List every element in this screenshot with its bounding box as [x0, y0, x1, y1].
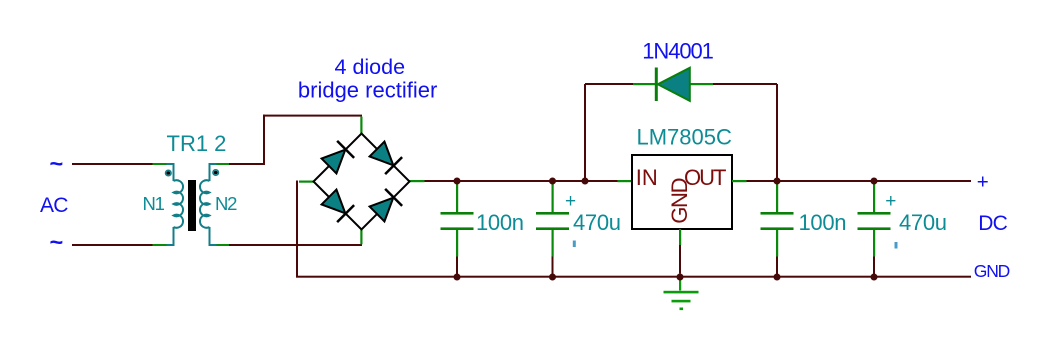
capacitor C3 plates: [761, 212, 794, 215]
diode D5 1N4001 triangle: [658, 68, 690, 101]
ground symbol bar 3: [680, 308, 684, 311]
junction dot bottom rail at C3: [774, 274, 781, 281]
svg-text:+: +: [885, 191, 896, 212]
transformer TR1 primary leg top: [167, 164, 174, 181]
transformer TR1 phase dot left: [166, 170, 171, 175]
bridge diode D3 (left to bottom): [321, 189, 355, 223]
capacitor C2 470u lead top (green): [552, 184, 554, 212]
svg-text:AC: AC: [40, 194, 68, 217]
bridge diode D4 (bottom to right): [369, 189, 403, 223]
junction dot bottom rail at regulator GND: [677, 274, 684, 281]
svg-text:100n: 100n: [476, 210, 524, 235]
svg-text:DC: DC: [978, 212, 1007, 235]
ground symbol bar 2: [672, 300, 691, 303]
wire regulator GND to rail (maroon): [679, 245, 681, 274]
wire secondary top: [229, 163, 265, 165]
regulator U1 pin GND lead (green): [679, 229, 681, 245]
wire diode branch right horizontal: [713, 83, 777, 85]
junction dot top rail at C2: [549, 178, 556, 185]
diode D5 1N4001 anode lead (green): [690, 83, 713, 85]
junction dot top rail at C1: [454, 178, 461, 185]
bridge diode D2 (top to right): [369, 141, 403, 175]
bridge stub left (green): [299, 181, 314, 183]
transformer TR1 pin top-right (green): [217, 163, 230, 165]
capacitor C1 lead bottom (green): [456, 230, 458, 257]
bridge stub top (green): [360, 117, 362, 134]
svg-text:LM7805C: LM7805C: [637, 124, 733, 149]
junction dot bottom rail at C4: [871, 274, 878, 281]
svg-text:TR1 2: TR1 2: [167, 131, 227, 156]
capacitor C3 lead bottom (maroon): [776, 257, 778, 278]
regulator U1 body: [632, 155, 732, 229]
capacitor C2 plates: [536, 212, 569, 215]
svg-text:GND: GND: [667, 178, 692, 223]
bridge diode D1 (left to top): [321, 141, 355, 175]
capacitor C4 lead bottom (green): [873, 230, 875, 257]
svg-text:1N4001: 1N4001: [642, 39, 713, 64]
transformer TR1 secondary leg top: [210, 164, 217, 181]
svg-text:bridge rectifier: bridge rectifier: [298, 78, 437, 103]
capacitor C3 lead bottom (green): [776, 230, 778, 257]
capacitor C3 100n lead top (green): [776, 184, 778, 212]
ground symbol bar 1: [664, 291, 699, 294]
transformer TR1 primary winding N1 coil: [174, 180, 184, 228]
wire diode branch right vertical: [776, 84, 778, 181]
capacitor C4 470u lead top (green): [873, 184, 875, 212]
capacitor C2 lead bottom (maroon): [552, 257, 554, 278]
bridge rectifier diamond: [314, 134, 410, 230]
bridge stub right (green): [410, 180, 425, 182]
diode D5 1N4001 cathode bar: [655, 68, 658, 102]
wire AC top: [72, 163, 153, 165]
junction dot top rail at C4: [871, 178, 878, 185]
wire vertical up to bridge: [263, 115, 265, 165]
diode D5 1N4001 cathode lead (green): [633, 83, 655, 85]
svg-text:~: ~: [50, 229, 64, 255]
svg-text:GND: GND: [974, 261, 1010, 281]
bridge stub bottom (green): [360, 230, 362, 245]
svg-text:N1: N1: [143, 193, 165, 214]
capacitor C4 minus tick: [895, 242, 898, 249]
junction dot bottom rail at C2: [549, 274, 556, 281]
svg-text:+: +: [977, 170, 989, 193]
wire horizontal to bridge top: [263, 115, 362, 117]
transformer TR1 primary leg bottom: [167, 227, 174, 245]
junction dot bottom rail at C1: [454, 274, 461, 281]
svg-text:4 diode: 4 diode: [335, 55, 406, 79]
svg-text:~: ~: [50, 150, 64, 176]
transformer TR1 pin top-left (green): [153, 163, 167, 165]
regulator U1 pin IN lead (green): [618, 180, 633, 182]
svg-text:IN: IN: [636, 165, 658, 190]
transformer TR1 core: [188, 180, 196, 231]
capacitor C4 lead bottom (maroon): [873, 257, 875, 278]
capacitor C1 lead bottom (maroon): [456, 257, 458, 278]
wire secondary bottom to bridge: [229, 244, 362, 246]
wire top rail (bridge output to regulator IN): [425, 180, 618, 182]
wire ground rail (bottom): [296, 276, 971, 278]
transformer TR1 pin bottom-left (green): [153, 244, 167, 246]
capacitor C1 plates: [441, 212, 474, 215]
wire AC bottom: [72, 244, 153, 246]
svg-text:470u: 470u: [573, 210, 621, 235]
ground symbol stub (green): [679, 277, 681, 291]
transformer TR1 secondary winding N2 coil: [200, 180, 210, 228]
svg-text:100n: 100n: [799, 210, 847, 235]
wire bridge negative vertical: [296, 181, 298, 278]
capacitor C4 plates: [858, 212, 891, 215]
wire diode branch left vertical: [584, 84, 586, 181]
capacitor C2 minus tick: [573, 241, 576, 248]
svg-text:N2: N2: [215, 193, 237, 214]
capacitor C1 100n lead top (green): [456, 184, 458, 212]
wire top rail (regulator OUT to DC+): [747, 180, 972, 182]
wire diode branch left horizontal: [585, 83, 633, 85]
junction dot top rail at diode branch left: [582, 178, 589, 185]
svg-text:470u: 470u: [899, 210, 947, 235]
regulator U1 pin OUT lead (green): [732, 180, 747, 182]
transformer TR1 phase dot right: [213, 170, 218, 175]
capacitor C2 lead bottom (green): [552, 230, 554, 257]
transformer TR1 pin bottom-right (green): [217, 244, 230, 246]
junction dot top rail at diode branch right: [774, 178, 781, 185]
transformer TR1 secondary leg bottom: [210, 227, 217, 245]
